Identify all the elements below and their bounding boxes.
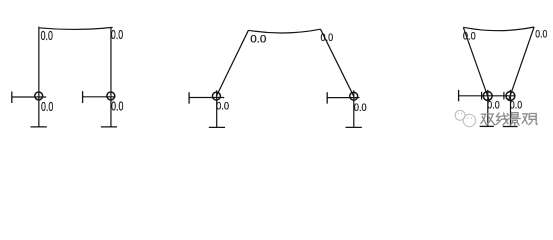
svg-text:0.0: 0.0 xyxy=(535,28,548,40)
svg-text:0.0: 0.0 xyxy=(463,31,476,43)
svg-text:0.0: 0.0 xyxy=(250,34,266,46)
svg-text:0.0: 0.0 xyxy=(111,100,123,114)
svg-text:0.0: 0.0 xyxy=(321,32,334,44)
svg-text:0.0: 0.0 xyxy=(41,100,53,114)
svg-text:0.0: 0.0 xyxy=(510,100,523,112)
svg-text:0.0: 0.0 xyxy=(216,101,229,113)
svg-text:0.0: 0.0 xyxy=(354,102,367,114)
svg-text:0.0: 0.0 xyxy=(111,28,123,42)
svg-text:0.0: 0.0 xyxy=(41,29,53,43)
svg-text:0.0: 0.0 xyxy=(487,100,500,112)
